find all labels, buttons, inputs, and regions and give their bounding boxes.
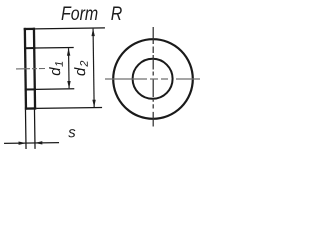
extension line s left bbox=[24, 110, 27, 149]
washer front view outer circle bbox=[113, 39, 193, 119]
hole edge bottom line in section bbox=[25, 88, 36, 90]
title "Form R" bbox=[61, 2, 123, 24]
extension line hole top (d1) bbox=[35, 47, 73, 50]
svg-text:FormR: FormR bbox=[61, 2, 123, 24]
vertical centerline of front view bbox=[152, 27, 154, 127]
extension line s right bbox=[33, 110, 36, 149]
dimension line d2 bbox=[91, 28, 96, 107]
svg-text:s: s bbox=[68, 124, 76, 141]
hole edge top line in section bbox=[24, 47, 35, 49]
dimension line s (inward arrows) bbox=[4, 141, 59, 145]
washer front view inner circle (hole) bbox=[133, 59, 173, 99]
extension line bottom (d2) bbox=[36, 107, 102, 110]
dimension line d1 bbox=[67, 48, 71, 89]
extension line hole bottom (d1) bbox=[36, 88, 74, 91]
horizontal centerline of front view bbox=[105, 78, 200, 80]
washer section outline (side view rectangle) bbox=[24, 28, 37, 110]
section centerline bbox=[16, 68, 45, 70]
extension line top (d2) bbox=[35, 27, 105, 30]
